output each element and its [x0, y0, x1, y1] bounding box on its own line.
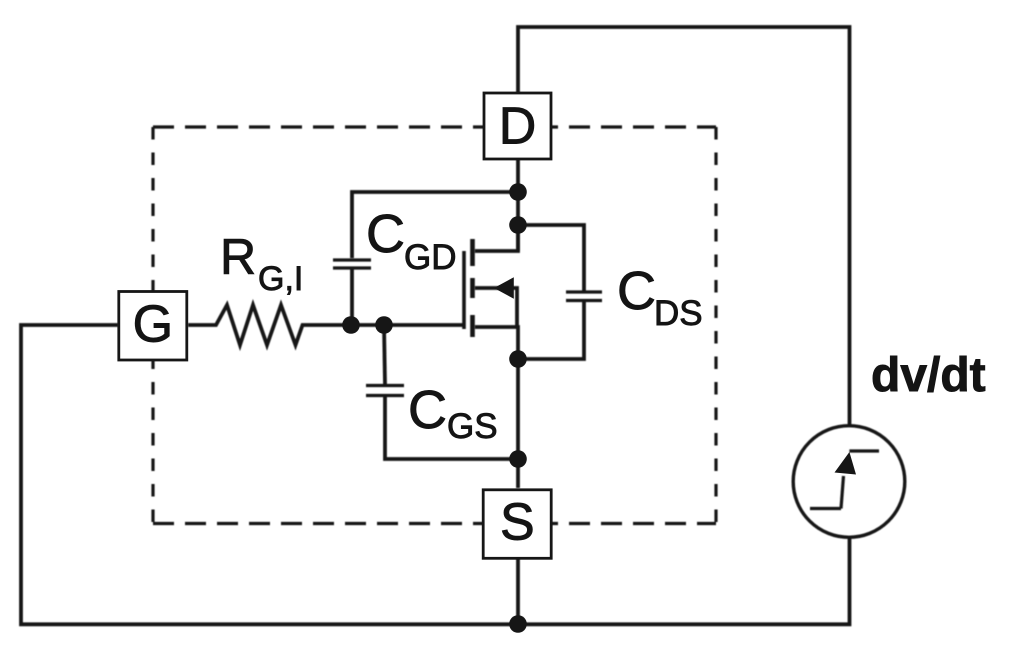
svg-text:GD: GD	[404, 238, 457, 277]
svg-text:GS: GS	[447, 407, 498, 446]
svg-text:S: S	[500, 494, 535, 552]
svg-text:R: R	[220, 229, 256, 285]
svg-text:C: C	[408, 380, 447, 440]
svg-text:C: C	[617, 261, 656, 321]
svg-text:G: G	[133, 296, 173, 354]
svg-text:dv/dt: dv/dt	[871, 349, 986, 402]
svg-text:DS: DS	[654, 294, 703, 333]
svg-text:C: C	[366, 204, 405, 264]
svg-text:D: D	[499, 98, 537, 156]
svg-text:G,I: G,I	[258, 260, 303, 298]
